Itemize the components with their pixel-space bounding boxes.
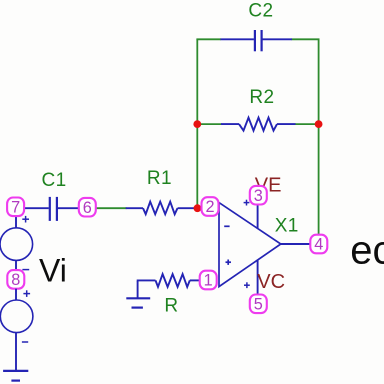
wire: VC supply lead out of op-amp [257,260,259,296]
node 6 [79,198,96,217]
node 7 [7,198,24,217]
node 4 [310,235,327,254]
resistor R2 [221,118,296,131]
capacitor C2 [221,30,293,51]
wire: green segment node 6 to R1 [96,207,127,209]
ground below R [126,298,150,307]
svg-text:C2: C2 [248,1,273,22]
svg-text:2: 2 [205,198,214,216]
svg-text:ec: ec [350,229,384,273]
capacitor C1 [24,197,79,221]
wire: node 7 to source V7 [15,216,17,229]
wire: left vertical of feedback loop [196,39,198,208]
node 5 [250,295,267,314]
resistor R1 [126,202,198,215]
plus mark of source V7 [22,216,29,223]
junction dot right of R2 [315,120,323,128]
wire: R2 right green segment [295,123,319,125]
wire: top left green segment to C2 [196,38,221,40]
wire: right vertical of feedback loop [318,39,320,236]
wire: source V7 to node 8 [15,260,17,271]
wire: source V8 to ground [15,333,17,371]
source V8 circle [0,300,33,333]
resistor R [137,274,200,298]
svg-text:5: 5 [254,296,263,314]
svg-text:7: 7 [11,199,20,217]
plus mark at VC [244,282,250,288]
wire: op-amp output to node 4 [281,243,311,245]
minus mark below source V8 [22,341,28,343]
junction dot left of R2 [193,120,201,128]
junction dot at inverting input node [194,204,202,212]
svg-text:3: 3 [254,187,263,205]
ground below V8 [3,371,28,381]
svg-text:4: 4 [314,236,323,254]
node 8 [7,270,24,289]
node 3 [250,186,267,205]
svg-text:C1: C1 [42,170,67,191]
plus mark of source V8 [23,290,30,297]
svg-text:R1: R1 [147,168,172,189]
svg-text:R2: R2 [249,87,274,108]
wire: top right green segment from C2 [292,38,320,40]
node 1 [200,271,217,290]
svg-text:Vi: Vi [39,253,67,289]
minus mark below source V7 [22,269,29,271]
svg-text:8: 8 [11,271,20,289]
svg-text:1: 1 [204,272,213,290]
node 2 [202,197,219,216]
op-amp X1 [219,203,281,287]
svg-text:VC: VC [257,271,285,293]
wire: node 8 to source V8 [15,289,17,301]
source V7 circle [0,228,33,261]
wire: VE supply lead into op-amp [257,204,259,229]
plus mark at VE [244,200,250,206]
svg-text:R: R [164,296,178,317]
wire: R2 left green segment [197,123,221,125]
svg-text:6: 6 [83,199,92,217]
svg-text:X1: X1 [275,216,299,237]
